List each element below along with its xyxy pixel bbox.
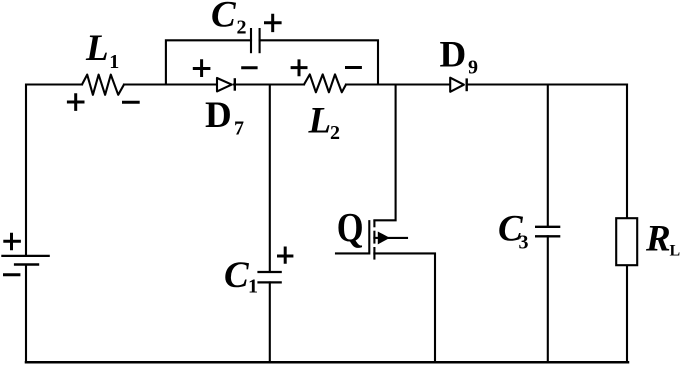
svg-text:D: D — [440, 34, 467, 75]
svg-text:L: L — [85, 28, 109, 69]
inductor L2 — [304, 74, 346, 92]
plus sign D7 anode — [193, 59, 211, 77]
capacitor C1 bottom plate — [257, 281, 281, 283]
wire: L1 to D7 anode — [124, 83, 216, 85]
transistor Q body lead — [389, 237, 407, 239]
plus sign battery — [3, 233, 21, 251]
plus sign L2 left — [291, 59, 308, 76]
transistor Q channel bottom segment — [373, 247, 375, 260]
wire: D7 cathode to L2 — [234, 83, 304, 85]
capacitor C3 bottom plate — [535, 235, 560, 237]
transistor Q gate lead — [336, 221, 369, 253]
transistor Q channel middle segment — [373, 231, 375, 244]
svg-text:D: D — [205, 95, 232, 136]
wire: C2 box right side — [260, 40, 378, 84]
plus sign L1 left — [67, 93, 85, 111]
transistor Q channel top segment — [373, 220, 375, 227]
svg-text:L: L — [670, 243, 680, 260]
capacitor C2 left plate — [250, 28, 252, 53]
minus sign D7 cathode — [241, 66, 257, 69]
transistor Q body stub — [374, 237, 378, 239]
wire: MOSFET drain vertical from top rail — [374, 85, 395, 221]
wire: C3 branch upper — [547, 85, 549, 227]
svg-text:3: 3 — [519, 231, 529, 253]
wire: bottom rail — [26, 361, 628, 364]
minus sign L1 right — [122, 101, 140, 104]
wire: C1 branch lower — [269, 282, 271, 362]
transistor Q body arrow — [378, 232, 389, 243]
svg-text:2: 2 — [330, 122, 340, 144]
svg-text:2: 2 — [237, 16, 247, 38]
diode D9 triangle — [450, 78, 464, 92]
svg-text:1: 1 — [248, 276, 258, 298]
svg-text:C: C — [211, 0, 237, 35]
inductor L1 — [82, 75, 124, 95]
wire: RL branch lower — [626, 266, 628, 362]
capacitor C3 top plate — [535, 226, 560, 228]
svg-text:9: 9 — [468, 57, 478, 79]
capacitor C1 top plate — [257, 271, 281, 273]
svg-text:1: 1 — [109, 51, 119, 73]
svg-text:Q: Q — [337, 205, 364, 250]
svg-text:C: C — [224, 255, 250, 296]
wire: RL branch upper — [626, 85, 628, 218]
minus sign battery — [3, 273, 20, 276]
svg-text:7: 7 — [234, 117, 244, 139]
wire: D9 cathode to right edge — [467, 83, 627, 85]
battery long plate — [1, 255, 50, 257]
wire: battery negative to bottom-left corner — [25, 265, 27, 363]
svg-text:R: R — [645, 219, 671, 260]
minus sign L2 right — [345, 66, 362, 69]
plus sign C1 — [277, 247, 293, 264]
wire: C3 branch lower — [547, 236, 549, 362]
diode D7 triangle — [217, 78, 232, 91]
plus sign C2 — [264, 14, 282, 32]
wire: top main horizontal, left vertical to battery segment — [26, 85, 82, 256]
wire: MOSFET source lead to bottom rail — [374, 253, 435, 362]
diode D7 cathode bar — [234, 78, 236, 91]
capacitor C2 right plate — [259, 28, 261, 53]
diode D9 cathode bar — [466, 78, 468, 91]
polarity signs — [3, 14, 362, 275]
svg-text:L: L — [308, 101, 332, 142]
wire: C2 box left edge — [166, 40, 251, 84]
wire: C1 branch upper — [269, 85, 271, 273]
battery short plate — [14, 263, 39, 266]
resistor RL body — [616, 218, 637, 265]
wire: L2 to D9 anode — [346, 83, 449, 85]
